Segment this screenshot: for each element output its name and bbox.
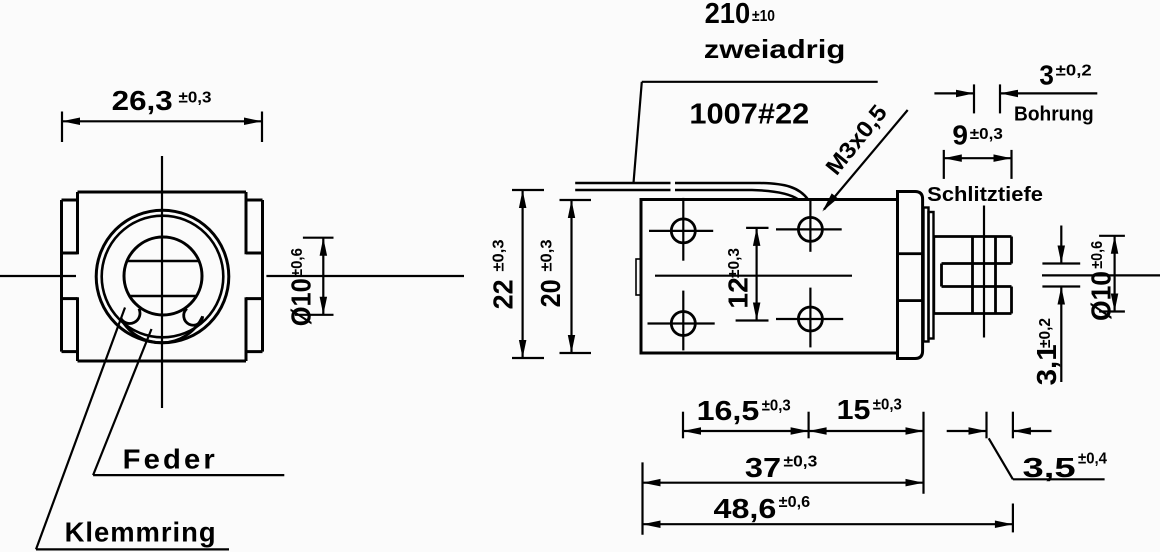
svg-text:±0,2: ±0,2 — [1056, 62, 1092, 79]
left strip outer edge — [60, 200, 63, 352]
svg-text:±0,4: ±0,4 — [1078, 450, 1107, 467]
svg-text:26,3: 26,3 — [112, 85, 173, 116]
svg-text:±0,3: ±0,3 — [726, 248, 743, 278]
frame left edge lower — [76, 297, 79, 361]
svg-text:48,6: 48,6 — [714, 493, 777, 524]
svg-text:±0,6: ±0,6 — [1089, 241, 1106, 269]
frame bottom edge — [78, 360, 247, 363]
right strip lower divider — [246, 297, 263, 300]
mounting hole top-right — [776, 198, 842, 252]
dimension 15 +-0,3 — [809, 394, 924, 494]
right strip outer edge — [261, 200, 264, 352]
svg-text:Bohrung: Bohrung — [1014, 104, 1094, 126]
dimension 48,6 +-0,6 — [643, 493, 1013, 533]
cross hole right edge — [994, 237, 997, 314]
left strip lower divider — [62, 297, 78, 300]
dimension 9 +-0,3 (slot depth) — [927, 120, 1043, 207]
slot top edge — [942, 262, 1012, 265]
svg-text:22: 22 — [488, 279, 519, 309]
flange plates — [924, 208, 934, 342]
svg-text:20: 20 — [535, 279, 566, 307]
threaded stud with slot — [934, 206, 1012, 338]
leader and label Feder (spring) — [93, 329, 284, 475]
svg-text:±0,6: ±0,6 — [289, 248, 306, 277]
klemmring right hook — [184, 309, 203, 326]
dimension 22 +-0,3 (overall height) — [488, 190, 545, 358]
svg-text:±0,3: ±0,3 — [784, 453, 818, 470]
svg-text:Ø10: Ø10 — [286, 278, 317, 326]
hub rectangle right — [898, 254, 923, 301]
horizontal centerline left segment — [0, 275, 76, 277]
body horizontal centerline — [655, 275, 852, 277]
side view solenoid body — [636, 200, 898, 354]
right boss ring — [898, 192, 923, 359]
left hub bump — [636, 259, 641, 295]
svg-text:Feder: Feder — [123, 444, 218, 475]
svg-text:210: 210 — [705, 0, 751, 30]
body rectangle — [641, 200, 898, 354]
svg-text:15: 15 — [837, 394, 871, 425]
svg-text:16,5: 16,5 — [697, 395, 760, 426]
frame right edge lower — [245, 297, 248, 361]
svg-text:3,5: 3,5 — [1023, 452, 1076, 483]
svg-text:3,1: 3,1 — [1031, 344, 1062, 385]
svg-text:zweiadrig: zweiadrig — [704, 34, 846, 64]
plunger slot upper chord — [128, 260, 200, 263]
slot bottom edge — [942, 285, 1012, 288]
right horizontal centerline — [1042, 274, 1160, 276]
svg-text:±0,3: ±0,3 — [762, 397, 791, 414]
left strip upper divider — [62, 252, 78, 255]
dimension 26,3 +-0,3 (width over tabs) — [62, 85, 262, 142]
dimension 3,1 +-0,2 (slot width) — [1031, 226, 1080, 386]
dimension 37 +-0,3 — [643, 452, 924, 535]
lead wires (two) — [575, 183, 808, 200]
leader and label Klemmring (clamp ring) — [36, 308, 229, 550]
mounting hole top-left — [649, 198, 713, 261]
front view of solenoid frame — [0, 156, 464, 408]
dimension 3 +-0,2 Bohrung (cross hole) — [934, 59, 1097, 125]
svg-text:12: 12 — [723, 277, 754, 308]
klemmring left hook — [121, 309, 140, 324]
slot left face — [940, 264, 943, 287]
svg-text:3: 3 — [1039, 59, 1054, 90]
svg-text:Ø10: Ø10 — [1086, 271, 1117, 321]
frame top edge — [78, 191, 247, 194]
dimension 12 +-0,3 (hole spacing) — [723, 228, 769, 321]
vertical centerline — [161, 156, 163, 408]
left strip top edge — [62, 199, 78, 202]
horizontal centerline right segment — [266, 275, 464, 277]
dimension 16,5 +-0,3 — [683, 395, 809, 438]
plunger slot lower chord — [130, 295, 198, 298]
wire label bracket leader — [634, 82, 878, 183]
svg-text:±10: ±10 — [752, 8, 775, 25]
svg-text:±0,6: ±0,6 — [779, 494, 810, 511]
svg-text:37: 37 — [745, 452, 781, 483]
svg-text:±0,3: ±0,3 — [873, 396, 902, 413]
svg-text:9: 9 — [952, 120, 968, 151]
dimension diameter 10 +-0,6 (stud) — [1086, 236, 1125, 321]
cross hole left edge — [971, 237, 974, 314]
mounting hole bottom-right — [776, 288, 843, 348]
frame right edge upper — [245, 192, 248, 254]
svg-text:±0,3: ±0,3 — [491, 239, 508, 271]
left strip bottom edge — [62, 350, 78, 353]
klemmring outer circle — [102, 216, 224, 338]
svg-text:±0,3: ±0,3 — [179, 90, 212, 107]
klemmring inner arc — [121, 316, 203, 342]
right strip top edge — [246, 199, 263, 202]
right strip bottom edge — [246, 350, 263, 353]
svg-text:±0,3: ±0,3 — [539, 239, 556, 271]
dimension 20 +-0,3 (tube height) — [535, 200, 591, 353]
dimension 3,5 +-0,4 (hole to end) — [947, 412, 1107, 483]
cross hole centerline — [983, 206, 985, 338]
svg-text:1007#22: 1007#22 — [689, 99, 809, 131]
svg-text:±0,3: ±0,3 — [970, 126, 1003, 143]
plunger circle — [124, 237, 202, 315]
frame left edge upper — [76, 192, 79, 254]
svg-text:Klemmring: Klemmring — [65, 517, 217, 548]
svg-text:Schlitztiefe: Schlitztiefe — [927, 184, 1043, 206]
svg-text:±0,2: ±0,2 — [1037, 318, 1054, 348]
label M3x0,5 with leader arrow — [820, 99, 908, 211]
right strip upper divider — [246, 252, 263, 255]
dimension diameter 10 +-0,6 (plunger, front view) — [286, 238, 334, 327]
coil bore outer circle — [96, 210, 229, 343]
mounting hole bottom-left — [648, 291, 715, 351]
